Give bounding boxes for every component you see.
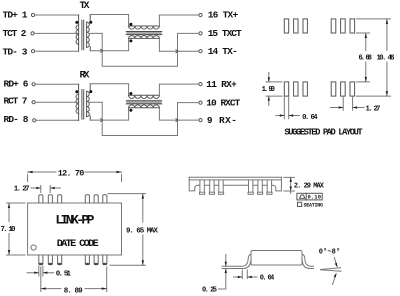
pin 10 terminal circle: [199, 101, 202, 104]
svg-text:DATE CODE: DATE CODE: [57, 239, 99, 250]
svg-text:RD- 8: RD- 8: [4, 114, 29, 125]
pin 1 terminal circle: [31, 13, 34, 16]
pin 16 terminal circle: [199, 13, 202, 16]
svg-text:RX: RX: [80, 71, 90, 82]
dimension 0.64 extension lines: [284, 97, 288, 119]
svg-text:TD- 3: TD- 3: [3, 46, 28, 57]
svg-text:TX: TX: [80, 1, 90, 12]
end view body: [251, 251, 302, 266]
side view body bottom edge: [199, 184, 272, 186]
wire choke L2 top-right to pin11: [159, 84, 198, 95]
pin 8 terminal circle: [33, 119, 36, 122]
transformer T2 core: [82, 90, 84, 120]
choke L2 core bar: [126, 101, 161, 103]
T1 secondary polarity dot: [89, 21, 92, 24]
dimension 12.70 line: [28, 171, 122, 173]
wire T2 secondary bottom to choke L2 bottom-left: [90, 108, 128, 120]
dimension 1.27 arrows: [31, 187, 61, 189]
svg-text:LINK-PP: LINK-PP: [55, 212, 94, 227]
dimension 1.27 extension lines: [41, 186, 50, 193]
dimension 7.10 line: [8, 203, 10, 255]
lead angle leader from below: [333, 274, 337, 285]
choke L2 top winding: [129, 94, 160, 96]
choke L2 bottom winding: [129, 107, 160, 109]
dimension 2.29 MAX line: [290, 177, 292, 193]
svg-text:1. 90: 1. 90: [262, 86, 275, 94]
pin 15 terminal circle: [199, 32, 202, 35]
crossover mark at pin14 wire: [176, 50, 178, 53]
side view leads left group: [200, 181, 224, 195]
svg-text:16 TX+: 16 TX+: [208, 9, 239, 20]
dimension 2.29 MAX extension lines: [284, 177, 295, 191]
transformer T1 core: [82, 20, 84, 50]
dimension 1.27 arrows: [331, 107, 364, 109]
lead angle reference lines: [321, 268, 342, 271]
side view body top band: [189, 177, 281, 180]
dimension 0.51 arrows: [27, 272, 54, 274]
transformer T2 secondary winding: [89, 84, 91, 120]
dimension 0.25 arrows: [219, 255, 226, 290]
pad row top-left (pads 16,15,14): [284, 19, 288, 33]
dimension 10.48 line: [386, 19, 388, 96]
dimension 0.64 arrows: [234, 276, 258, 278]
wire pin2 to T1 primary center tap: [34, 32, 78, 34]
transformer T1 primary winding: [78, 15, 80, 51]
svg-text:11 RX+: 11 RX+: [206, 79, 237, 90]
pad row bottom-left (pads 1,2,3): [284, 82, 288, 96]
pin 9 terminal circle: [199, 119, 202, 122]
svg-text:9. 65 MAX: 9. 65 MAX: [126, 228, 158, 236]
T2 primary polarity dot: [75, 90, 78, 93]
svg-text:TCT 2: TCT 2: [3, 28, 27, 39]
package body outline: [28, 203, 122, 255]
svg-text:7. 10: 7. 10: [1, 226, 16, 234]
wire choke L1 bottom-right to pin14: [159, 38, 198, 51]
seating plane note: [298, 202, 302, 206]
pin 6 terminal circle: [32, 83, 35, 86]
choke L1 top polarity dot: [129, 23, 132, 26]
wire pin6 to T2 primary top: [35, 83, 78, 85]
dimension 12.70 extension lines: [28, 175, 122, 182]
dimension 0.64 extension lines: [242, 270, 247, 279]
svg-text:14 TX-: 14 TX-: [208, 46, 238, 57]
choke L1 bottom polarity dot: [129, 39, 132, 42]
side view leads right group: [248, 181, 272, 195]
dimension 0.51 extension lines: [39, 266, 43, 276]
wire T2 secondary top to choke L2 top-left: [90, 84, 128, 96]
crossover mark at pin9 wire: [176, 119, 178, 122]
svg-text:10 RXCT: 10 RXCT: [206, 98, 240, 109]
transformer T1 secondary winding: [89, 15, 91, 51]
svg-text:10. 48: 10. 48: [377, 54, 395, 62]
svg-text:15 TXCT: 15 TXCT: [208, 28, 242, 39]
pin 2 terminal circle: [31, 32, 34, 35]
svg-text:0. 25: 0. 25: [202, 286, 217, 294]
svg-text:9 RX-: 9 RX-: [207, 115, 237, 126]
choke L2 top polarity dot: [129, 92, 132, 95]
side view left end profile: [189, 177, 198, 191]
wire pin3 to T1 primary bottom: [35, 50, 79, 52]
svg-text:0. 64: 0. 64: [260, 274, 275, 282]
svg-text:0. 64: 0. 64: [302, 114, 318, 122]
dimension 8.89 line: [41, 288, 107, 290]
choke L1 top winding: [129, 25, 160, 27]
pin 1 index circle: [31, 245, 36, 250]
pin 11 terminal circle: [199, 83, 202, 86]
wire T1 secondary bottom to choke L1 bottom-left: [90, 38, 128, 50]
top pins: [39, 195, 62, 203]
wire T1 secondary center tap to pin15 (routed below): [89, 33, 198, 66]
transformer T2 primary winding: [78, 84, 80, 120]
dimension 1.90 extension lines: [266, 82, 282, 96]
pin 3 terminal circle: [31, 50, 34, 53]
choke L1 bottom winding: [129, 37, 160, 39]
svg-text:SUGGESTED PAD LAYOUT: SUGGESTED PAD LAYOUT: [284, 128, 363, 138]
wire choke L2 bottom-right to pin9: [159, 108, 198, 120]
svg-text:1. 27: 1. 27: [366, 106, 381, 114]
wire pin1 to T1 primary top: [35, 14, 79, 16]
dimension 8.89 extension lines: [41, 267, 107, 292]
crossover mark at secondary-bottom wire: [101, 49, 103, 52]
svg-text:0.10: 0.10: [308, 194, 322, 201]
wire choke L1 top-right to pin16: [159, 15, 198, 26]
svg-text:TD+ 1: TD+ 1: [3, 9, 28, 20]
wire pin7 to T2 primary center tap: [35, 101, 78, 103]
end view right lead: [302, 254, 314, 266]
svg-text:SEATING: SEATING: [304, 203, 324, 209]
dimension 6.68 line: [365, 33, 367, 82]
dimension 9.65 MAX line: [142, 194, 144, 266]
svg-text:0°~8°: 0°~8°: [319, 248, 341, 257]
lead angle leader from text: [334, 258, 337, 267]
side view right end profile: [272, 177, 281, 191]
T2 secondary polarity dot: [89, 90, 92, 93]
pad row top-right (pads 11,10,9): [331, 19, 336, 33]
end view left lead: [222, 254, 251, 266]
wire T1 secondary top to choke L1 top-left: [90, 15, 128, 27]
svg-text:8. 89: 8. 89: [64, 287, 83, 295]
wire T2 secondary center tap to pin10 (routed below): [89, 102, 198, 135]
choke L2 bottom polarity dot: [129, 109, 132, 112]
pin 7 terminal circle: [32, 101, 35, 104]
dimension 7.10 extension lines: [7, 203, 26, 255]
dimension 0.64 arrows: [276, 115, 300, 117]
svg-text:RCT 7: RCT 7: [4, 96, 28, 107]
svg-text:6. 68: 6. 68: [359, 54, 373, 62]
svg-text:1. 27: 1. 27: [14, 186, 30, 194]
svg-text:2. 29 MAX: 2. 29 MAX: [294, 182, 325, 190]
choke L1 core bar: [126, 32, 161, 34]
svg-text:RD+ 6: RD+ 6: [4, 79, 29, 90]
pin 14 terminal circle: [199, 50, 202, 53]
wire pin8 to T2 primary bottom: [36, 119, 79, 121]
flatness feature control frame: [297, 193, 322, 200]
svg-text:0. 51: 0. 51: [56, 271, 72, 279]
dimension 1.90 arrows: [268, 73, 270, 106]
bottom pins: [39, 255, 62, 263]
svg-text:12. 70: 12. 70: [58, 168, 85, 178]
dimension 6.68 extension lines: [357, 33, 370, 82]
dimension 9.65 MAX extension lines: [108, 194, 146, 266]
dimension 1.27 extension lines: [343, 97, 352, 111]
dimension 10.48 extension lines: [357, 19, 391, 96]
T1 primary polarity dot: [75, 21, 78, 24]
pad row bottom-right (pads 6,7,8): [331, 82, 336, 96]
crossover mark at secondary-bottom wire: [101, 119, 103, 122]
